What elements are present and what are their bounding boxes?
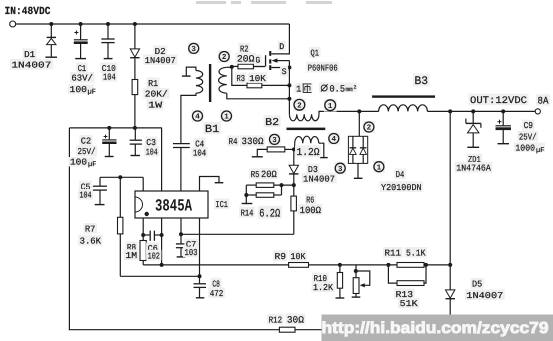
wire bottom ground rail xyxy=(69,329,452,331)
svg-text:D1: D1 xyxy=(24,50,35,60)
label R10 value 1.2K xyxy=(312,281,335,292)
transistor Q1 channel xyxy=(269,51,271,56)
label R1 value 1W xyxy=(147,99,164,110)
label R11 xyxy=(383,247,403,258)
svg-text:104: 104 xyxy=(193,149,206,159)
svg-text:Q1: Q1 xyxy=(311,48,320,58)
svg-text:2: 2 xyxy=(367,124,372,133)
label C10 value 104 xyxy=(102,71,118,82)
svg-text:104: 104 xyxy=(80,191,92,201)
svg-text:3.6K: 3.6K xyxy=(80,237,102,247)
transformer B2 aux winding xyxy=(295,136,319,143)
diode D3 xyxy=(293,175,295,186)
svg-text:20Ω: 20Ω xyxy=(237,54,255,65)
node junction source-B2 xyxy=(287,97,291,101)
svg-text:472: 472 xyxy=(210,289,224,299)
label C3 value 104 xyxy=(144,146,159,157)
svg-text:10K: 10K xyxy=(249,74,266,84)
wire D4 ground stub xyxy=(357,163,359,178)
transformer B1 primary winding xyxy=(219,67,227,93)
node junction C10-rail xyxy=(106,22,110,26)
label pin4 of B1 xyxy=(192,110,204,122)
node junction R14 left xyxy=(244,193,248,197)
svg-text:µF: µF xyxy=(88,161,96,169)
resistor R1 xyxy=(132,80,138,95)
resistor R9 xyxy=(289,263,309,268)
svg-text:Y20100DN: Y20100DN xyxy=(381,183,422,193)
svg-text:2: 2 xyxy=(297,102,302,111)
wire IC pin1 down xyxy=(142,218,144,241)
svg-text:R11: R11 xyxy=(385,249,402,259)
label R6 value 100ohm xyxy=(298,204,322,215)
diode D1 xyxy=(50,24,52,37)
inductor B3 winding xyxy=(379,105,428,112)
label R7 value 3.6K xyxy=(78,235,102,246)
wire IC pin2 down xyxy=(161,218,163,265)
wire gate lead xyxy=(253,66,265,68)
capacitor C5 xyxy=(99,177,101,186)
label R2 xyxy=(239,43,251,54)
label R7 xyxy=(83,223,97,234)
node junction R10 xyxy=(338,263,342,267)
label R13 value 51K xyxy=(398,298,419,309)
svg-text:0.5: 0.5 xyxy=(330,84,346,95)
potentiometer RP body xyxy=(353,278,359,294)
label C4 value 104 xyxy=(192,147,208,158)
label S xyxy=(280,66,288,76)
resistor R14 xyxy=(256,193,274,198)
node junction C9 xyxy=(501,109,505,113)
label D5 value 1N4007 xyxy=(465,289,505,300)
capacitor C3 xyxy=(134,128,136,140)
svg-text:100: 100 xyxy=(70,85,88,95)
node: output terminal xyxy=(535,109,540,114)
wire B3 to output xyxy=(427,110,535,112)
wire IC top-right stub xyxy=(200,177,220,192)
label C3 xyxy=(145,136,158,147)
wire R10 top xyxy=(339,265,341,273)
svg-text:R14: R14 xyxy=(241,208,254,218)
svg-text:P60NF06: P60NF06 xyxy=(308,63,338,73)
label C2 value 100uF xyxy=(69,157,95,167)
node junction R5-D3 xyxy=(292,183,296,187)
svg-text:6.2Ω: 6.2Ω xyxy=(259,207,280,220)
svg-text:B1: B1 xyxy=(205,124,220,136)
svg-text:IN:48VDC: IN:48VDC xyxy=(5,6,51,18)
node junction C6 left xyxy=(141,233,145,237)
label R9 value 10K xyxy=(289,250,307,261)
resistor R8 xyxy=(140,241,146,261)
node junction pin2-lowwire xyxy=(160,263,164,267)
label B2 winding 1.2ohm xyxy=(295,145,321,157)
node junction D2-rail xyxy=(133,22,137,26)
label D2 xyxy=(153,45,167,56)
svg-text:mm: mm xyxy=(346,86,354,93)
svg-text:1W: 1W xyxy=(148,101,163,111)
label R11 value 5.1K xyxy=(405,247,428,258)
capacitor C7 xyxy=(176,243,186,245)
label D5 xyxy=(471,278,484,289)
svg-text:3: 3 xyxy=(272,136,277,145)
svg-text:8A: 8A xyxy=(538,97,549,108)
label 8A xyxy=(536,94,550,106)
node junction R3-source xyxy=(287,83,291,87)
label R5 xyxy=(249,168,261,179)
svg-text:1: 1 xyxy=(224,114,229,122)
wire R6 top xyxy=(293,185,295,196)
svg-text:20K/: 20K/ xyxy=(145,90,168,100)
svg-text:B3: B3 xyxy=(415,75,429,88)
capacitor C8 xyxy=(194,283,207,285)
wire R13 right connector xyxy=(424,265,426,283)
wire B1 pin3 stub xyxy=(186,67,196,76)
label B3 xyxy=(413,74,430,87)
node junction R11 right xyxy=(424,263,428,267)
diode D5 xyxy=(446,290,455,298)
svg-text:1: 1 xyxy=(296,85,301,95)
node junction source xyxy=(287,66,291,70)
svg-text:D5: D5 xyxy=(472,280,482,290)
svg-text:C9: C9 xyxy=(524,121,533,131)
svg-text:D: D xyxy=(279,42,284,52)
transformer B1 aux winding xyxy=(196,71,203,94)
wire R13 left connector xyxy=(388,265,397,283)
svg-text:R6: R6 xyxy=(306,195,314,205)
svg-text:30Ω: 30Ω xyxy=(287,314,304,325)
label G xyxy=(254,54,262,64)
label C1 voltage 63V/ xyxy=(70,72,95,83)
transistor Q1 gate bar xyxy=(265,55,266,66)
label pin2 of B1 xyxy=(218,51,230,63)
svg-text:C2: C2 xyxy=(81,137,91,147)
wire R2 to gate xyxy=(253,66,265,68)
node junction R5 right xyxy=(280,183,284,187)
label pin1 of B2 xyxy=(324,99,337,112)
label Q1 type P60NF06 xyxy=(306,62,339,73)
label R12 value 30ohm xyxy=(285,313,305,324)
svg-text:5.1K: 5.1K xyxy=(406,249,426,259)
label IC1 xyxy=(214,198,230,209)
svg-text:G: G xyxy=(255,56,260,66)
label R3 value 10K xyxy=(248,72,267,83)
rectifier D4 diode a xyxy=(352,136,354,147)
wire feedback mid xyxy=(181,233,294,235)
resistor R11 xyxy=(397,263,424,268)
node junction ZD1 xyxy=(471,109,475,113)
label D1 xyxy=(23,48,37,59)
label R12 xyxy=(267,314,284,325)
svg-text:25V/: 25V/ xyxy=(78,147,96,157)
potentiometer RP wiper xyxy=(354,269,358,273)
node junction output-down xyxy=(448,109,452,113)
svg-text:63V/: 63V/ xyxy=(71,74,93,84)
wire B3 node to D4 xyxy=(358,111,360,136)
label R5 value 20ohm xyxy=(260,168,279,179)
label R1 value 20K/ xyxy=(143,88,169,99)
label Q1 xyxy=(309,47,321,58)
svg-text:R3: R3 xyxy=(237,74,246,84)
capacitor C1 electrolytic xyxy=(80,24,82,39)
wire B1 pin1 to source node xyxy=(227,93,290,99)
label B1 xyxy=(203,122,221,134)
inductor B3 core xyxy=(372,95,435,97)
wire VCC to IC pin7 xyxy=(161,128,163,191)
svg-text:R7: R7 xyxy=(85,225,96,235)
label C9 value 1000uF xyxy=(514,143,545,153)
label C1 value 100uF xyxy=(68,85,94,95)
svg-text:OUT:12VDC: OUT:12VDC xyxy=(470,96,527,107)
capacitor C2 electrolytic xyxy=(108,128,110,139)
label D1 value 1N4007 xyxy=(10,59,53,70)
transformer B2 core xyxy=(287,128,326,131)
transformer B1 core xyxy=(209,64,211,102)
svg-text:IC1: IC1 xyxy=(215,200,228,210)
node junction C1-rail xyxy=(79,22,83,26)
label C9 xyxy=(522,120,534,131)
svg-text:3: 3 xyxy=(191,45,196,54)
label ZD1 value 1N4746A xyxy=(455,162,493,173)
wire C4 to IC pin xyxy=(180,148,182,191)
svg-text:D4: D4 xyxy=(396,170,405,180)
resistor R3 xyxy=(247,83,262,88)
wire top 48V rail xyxy=(15,23,289,25)
svg-text:51K: 51K xyxy=(400,299,419,309)
svg-text:1N4007: 1N4007 xyxy=(303,174,335,184)
label R6 xyxy=(305,194,316,205)
zener ZD1 xyxy=(472,111,474,124)
node junction C6 right xyxy=(160,233,164,237)
label R8 value 1M xyxy=(124,249,139,260)
svg-text:R5: R5 xyxy=(251,170,260,180)
resistor R7 xyxy=(118,217,123,234)
label ZD1 xyxy=(467,154,483,165)
wire source vertical xyxy=(288,61,290,99)
decor: none / watermark band xyxy=(322,315,553,341)
svg-text:B2: B2 xyxy=(265,117,279,129)
label D2 value 1N4007 xyxy=(143,54,177,65)
capacitor C10 xyxy=(107,24,109,39)
label C8 xyxy=(211,278,222,289)
node junction D1-rail xyxy=(49,22,53,26)
svg-text:1N4007: 1N4007 xyxy=(11,61,51,71)
label R2 value 20ohm xyxy=(236,53,256,64)
node junction R7-Vref xyxy=(118,175,122,179)
node junction C2 xyxy=(107,126,111,130)
node junction B1 pin2 xyxy=(230,65,234,69)
label C7 value 103 xyxy=(183,246,199,257)
label C6 xyxy=(146,242,159,253)
potentiometer RP top xyxy=(355,265,357,278)
svg-text:3845A: 3845A xyxy=(155,198,193,217)
label D4 xyxy=(394,168,406,179)
svg-text:4: 4 xyxy=(195,114,200,122)
wire left border vertical xyxy=(68,128,70,330)
diode D2 xyxy=(134,24,136,49)
label D xyxy=(278,41,286,51)
svg-text:1000: 1000 xyxy=(515,144,535,154)
decor faint residue xyxy=(196,1,332,4)
wire Vref pin8 wire xyxy=(100,176,143,178)
label pin4 of B2 xyxy=(328,133,340,145)
label wire gauge 0.5mm2 xyxy=(319,83,357,93)
label B2 xyxy=(264,115,281,127)
node junction C7-feedback xyxy=(179,232,183,236)
wire B1 pin4 to C4 xyxy=(181,93,196,143)
node junction R4-B2pin3 xyxy=(292,147,296,151)
wire feedback low xyxy=(143,264,450,266)
svg-text:330Ω: 330Ω xyxy=(242,136,264,147)
svg-text:10K: 10K xyxy=(291,252,307,262)
rectifier D4 diode b xyxy=(362,136,364,147)
svg-text:1N4007: 1N4007 xyxy=(466,291,503,301)
wire IC pin4 down xyxy=(199,218,201,283)
wire R10 bottom stub xyxy=(339,288,341,298)
resistor R5 xyxy=(256,183,274,188)
resistor R13 xyxy=(397,281,424,286)
resistor R10 xyxy=(337,273,342,289)
label pin1 dot of IC xyxy=(145,212,149,216)
label D4 type Y20100DN xyxy=(380,181,424,192)
svg-text:25V/: 25V/ xyxy=(519,132,537,142)
transformer B2 secondary winding xyxy=(289,114,319,121)
svg-text:4: 4 xyxy=(332,136,337,144)
wire output down long xyxy=(449,111,451,290)
label R14 xyxy=(239,207,255,218)
capacitor C9 electrolytic xyxy=(502,111,504,125)
label pin2 of D4 xyxy=(363,121,375,133)
label C9 voltage 25V/ xyxy=(517,131,538,142)
wire D4 to B3 xyxy=(359,110,378,112)
svg-text:R9: R9 xyxy=(275,252,287,262)
node junction R1-C3 xyxy=(133,126,137,130)
wire B1 pin2 to R2 xyxy=(232,65,238,67)
label pin3 of B1 xyxy=(188,42,200,54)
label pin2 of B2 xyxy=(293,98,306,111)
svg-text:http://hi.baidu.com/zcycc79: http://hi.baidu.com/zcycc79 xyxy=(322,320,549,337)
label R3 xyxy=(235,72,247,83)
svg-text:1M: 1M xyxy=(125,251,137,261)
svg-text:102: 102 xyxy=(148,251,160,261)
svg-text:1N4007: 1N4007 xyxy=(145,56,176,66)
rectifier D4 package xyxy=(348,136,367,163)
label R10 xyxy=(312,272,329,283)
wire R4 left stub xyxy=(257,149,267,156)
svg-text:100: 100 xyxy=(70,158,87,168)
label R4 xyxy=(227,135,239,146)
svg-text:µF: µF xyxy=(88,89,96,97)
resistor R12 xyxy=(279,327,295,332)
wire Q1 source lead xyxy=(271,67,289,69)
wire R7 top xyxy=(119,177,121,217)
label R8 xyxy=(125,241,137,252)
svg-text:S: S xyxy=(282,67,287,77)
svg-text:100Ω: 100Ω xyxy=(300,205,322,216)
label C5 value 104 xyxy=(78,189,93,200)
label 1 turn chinese xyxy=(295,83,313,93)
capacitor C6 xyxy=(143,234,149,236)
label C10 xyxy=(100,62,117,73)
label pin1 of D4 xyxy=(373,161,385,173)
label C6 value 102 xyxy=(146,250,161,261)
label R13 xyxy=(394,288,414,299)
label C2 xyxy=(79,135,92,146)
svg-text:2: 2 xyxy=(222,53,227,62)
wire R4 right xyxy=(285,148,294,150)
resistor R6 xyxy=(291,196,297,211)
node junction B3 input xyxy=(357,109,361,113)
label pin3 of B2 xyxy=(269,133,281,145)
svg-text:R12: R12 xyxy=(269,315,283,325)
node junction R7-C8 xyxy=(198,274,202,278)
wire R8 bottom xyxy=(142,261,144,265)
svg-text:1.2Ω: 1.2Ω xyxy=(297,147,320,159)
svg-text:1: 1 xyxy=(328,103,333,111)
label C1 xyxy=(76,62,88,73)
svg-text:1: 1 xyxy=(377,164,382,172)
label pin1 of B1 xyxy=(221,110,233,122)
resistor R2 xyxy=(238,64,253,69)
svg-text:1.2K: 1.2K xyxy=(313,283,334,293)
wire drain from rail xyxy=(272,24,290,54)
svg-text:1N4746A: 1N4746A xyxy=(456,163,491,173)
label C4 xyxy=(194,138,206,149)
svg-text:µF: µF xyxy=(536,147,544,155)
wire VCC node horizontal xyxy=(69,127,161,129)
wire Q1 body lead with arrow xyxy=(277,60,290,62)
wire R5-R14 left joiner xyxy=(246,184,256,186)
node junction R11 left xyxy=(386,263,390,267)
potentiometer RP bottom stub xyxy=(355,294,357,297)
label C5 xyxy=(79,181,92,192)
svg-text:103: 103 xyxy=(185,248,198,258)
wire R5-R14 right joiner xyxy=(274,184,294,186)
label D3 value 1N4007 xyxy=(302,173,337,184)
label pin3 of D4 xyxy=(334,162,346,174)
wire R7 bottom xyxy=(119,234,121,276)
wire R1 to VCC node xyxy=(134,95,136,128)
svg-text:104: 104 xyxy=(146,148,158,158)
capacitor C4 xyxy=(173,143,190,145)
wire R3 to source line xyxy=(262,84,290,86)
label C7 xyxy=(184,238,198,249)
label C8 value 472 xyxy=(208,287,225,298)
label R1 xyxy=(147,77,160,88)
label D3 xyxy=(306,163,319,174)
wire IC pin3 down xyxy=(180,218,182,244)
label C2 voltage 25V/ xyxy=(76,145,97,156)
svg-text:2: 2 xyxy=(354,85,357,91)
label R14 value 6.2ohm xyxy=(258,206,282,219)
label OUT:12VDC xyxy=(469,94,529,106)
resistor R4 xyxy=(267,147,285,152)
svg-text:R4: R4 xyxy=(229,137,238,147)
svg-text:104: 104 xyxy=(103,73,116,83)
node: input positive terminal xyxy=(10,21,16,27)
wire node to R3 xyxy=(232,67,247,86)
node junction lowwire-outline xyxy=(448,263,452,267)
svg-text:3: 3 xyxy=(338,165,343,174)
op-amp U1 IC body 3845A xyxy=(135,191,208,218)
svg-text:20Ω: 20Ω xyxy=(261,169,277,180)
label R4 value 330ohm xyxy=(240,135,265,146)
label R9 xyxy=(273,250,288,261)
svg-text:R1: R1 xyxy=(148,79,158,89)
wire source to B2 xyxy=(288,99,290,114)
